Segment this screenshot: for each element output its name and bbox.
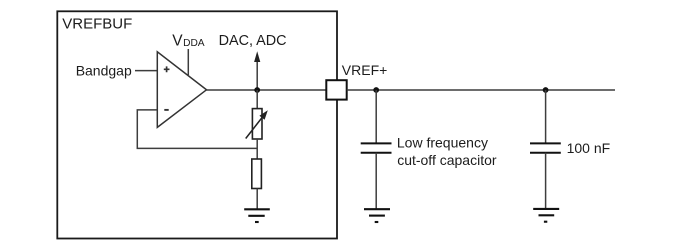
feedback wire [137,110,257,148]
wire Bandgap to + input [135,70,158,72]
capacitor C2 [530,90,561,209]
resistor R2 [252,159,262,189]
ground (resistor chain) [244,209,270,222]
ground (C1) [364,209,390,222]
junction node 3 [543,87,549,93]
output wire [207,89,327,91]
label VDDA [172,32,205,49]
op-amp U1 [157,52,206,128]
wire to variable resistor [256,90,258,109]
arrow to DAC, ADC [254,51,260,90]
svg-text:100 nF: 100 nF [567,140,611,156]
svg-text:Bandgap: Bandgap [76,62,132,78]
capacitor C1 [361,90,392,209]
wire VDDA [187,49,189,76]
variable resistor R1 [246,109,268,139]
junction node 2 [373,87,379,93]
svg-text:Low frequency: Low frequency [397,134,488,150]
pin VREF+ [326,80,346,99]
wire pin to right end [347,89,615,91]
junction node 1 [254,87,260,93]
svg-text:VREFBUF: VREFBUF [62,15,132,32]
wire between resistors [256,139,258,159]
svg-text:VREF+: VREF+ [342,62,388,78]
svg-text:DDA: DDA [183,38,205,49]
ground (C2) [533,209,559,222]
svg-text:cut-off capacitor: cut-off capacitor [397,152,497,168]
box VREFBUF [57,11,337,238]
label Low frequency cut-off capacitor [397,134,497,167]
svg-text:V: V [172,32,183,49]
wire resistor to ground [256,189,258,210]
svg-text:DAC, ADC: DAC, ADC [219,33,287,49]
